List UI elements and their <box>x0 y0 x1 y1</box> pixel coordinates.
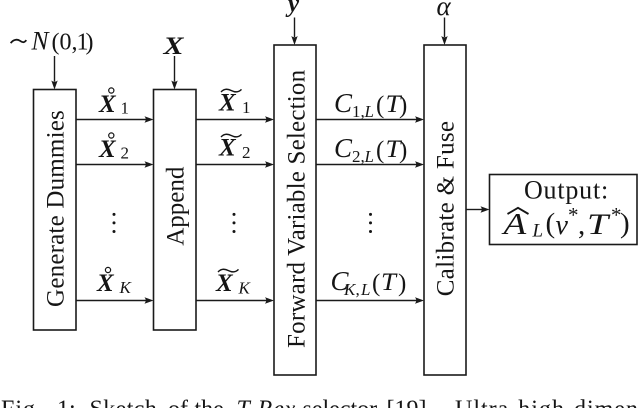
svg-text:T: T <box>381 269 398 296</box>
svg-text:*: * <box>568 203 579 227</box>
wire row2 FVS to Calibrate <box>316 161 424 167</box>
dots column 3 <box>369 213 372 233</box>
svg-text:L: L <box>360 280 370 299</box>
svg-text:v: v <box>556 210 569 241</box>
wire row1 FVS to Calibrate <box>316 116 424 122</box>
svg-text:C: C <box>334 88 353 118</box>
wire arrow y to Forward Variable Selection <box>291 18 297 46</box>
label X2 ring <box>98 133 129 163</box>
svg-text:C: C <box>334 133 353 163</box>
wire arrow X to Append <box>171 56 177 90</box>
svg-text:X: X <box>98 91 117 118</box>
svg-text:1: 1 <box>121 99 130 118</box>
wire row2 Append to FVS <box>196 161 274 167</box>
label CKL(T) <box>331 266 407 299</box>
wire rowK Append to FVS <box>196 297 274 303</box>
svg-text:(: ( <box>376 92 384 119</box>
svg-text:Forward Variable Selection: Forward Variable Selection <box>284 69 311 348</box>
svg-text:(: ( <box>372 270 380 297</box>
svg-text:L: L <box>364 147 374 166</box>
wire row2 Generate Dummies to Append <box>76 161 154 167</box>
svg-text:N: N <box>31 27 51 56</box>
svg-text:of: of <box>168 397 188 408</box>
wire arrow N(0,1) to Generate Dummies <box>51 56 57 90</box>
svg-text:X: X <box>98 136 117 163</box>
label X1 ring <box>98 88 129 118</box>
svg-text:(: ( <box>546 208 556 240</box>
label C1L(T) <box>334 88 407 121</box>
label XK ring <box>96 267 133 297</box>
svg-text:(: ( <box>376 137 384 164</box>
label X1 tilde <box>218 89 251 117</box>
label C2L(T) <box>334 133 407 166</box>
dots column 1 <box>113 213 116 233</box>
svg-text:X: X <box>218 90 237 117</box>
label A_L(v*,T*) <box>501 203 629 242</box>
block Calibrate & Fuse <box>424 45 466 375</box>
svg-text:K: K <box>238 279 252 298</box>
svg-text:,: , <box>356 280 360 299</box>
svg-text:T-Rex: T-Rex <box>237 397 297 408</box>
caption Fig. 1 <box>1 397 639 408</box>
svg-text:the: the <box>195 397 224 408</box>
svg-text:X: X <box>96 270 115 297</box>
svg-text:L: L <box>532 221 544 242</box>
svg-text:Append: Append <box>163 166 190 246</box>
svg-text:T: T <box>587 208 611 241</box>
svg-text:Calibrate & Fuse: Calibrate & Fuse <box>433 121 460 297</box>
wire Calibrate to Output <box>466 206 490 212</box>
svg-text:): ) <box>399 137 407 164</box>
svg-text:Sketch: Sketch <box>90 397 158 408</box>
svg-text:[19].: [19]. <box>387 397 433 408</box>
svg-text:,: , <box>578 209 585 241</box>
dots column 2 <box>233 213 236 233</box>
wire arrow alpha to Calibrate & Fuse <box>441 18 447 46</box>
svg-text:Output:: Output: <box>524 176 609 205</box>
wire row1 Generate Dummies to Append <box>76 116 154 122</box>
wire row1 Append to FVS <box>196 116 274 122</box>
svg-text:1,: 1, <box>352 102 365 121</box>
label ~N(0,1) <box>11 27 94 56</box>
svg-text:(0,: (0, <box>52 30 78 56</box>
svg-text:Generate Dummies: Generate Dummies <box>43 110 70 307</box>
svg-text:2: 2 <box>242 143 251 162</box>
block Append <box>154 90 197 331</box>
svg-text:selector: selector <box>303 397 378 408</box>
block Output <box>490 175 638 245</box>
svg-text:K: K <box>119 278 133 297</box>
svg-text:L: L <box>364 102 374 121</box>
block Forward Variable Selection <box>274 45 316 375</box>
block Generate Dummies <box>34 90 77 331</box>
svg-text:X: X <box>215 270 234 297</box>
svg-text:1:: 1: <box>57 397 76 408</box>
svg-text:X: X <box>218 135 237 162</box>
svg-text:1: 1 <box>242 98 251 117</box>
svg-text:): ) <box>399 92 407 119</box>
svg-text:): ) <box>620 208 630 240</box>
label XK tilde <box>215 269 252 297</box>
svg-text:Fig.: Fig. <box>1 397 43 408</box>
svg-text:X: X <box>162 33 185 60</box>
label X2 tilde <box>218 134 251 162</box>
svg-text:2,: 2, <box>352 147 365 166</box>
wire rowK FVS to Calibrate <box>316 297 424 303</box>
svg-text:): ) <box>398 270 406 297</box>
wire rowK Generate Dummies to Append <box>76 297 154 303</box>
svg-text:2: 2 <box>121 144 130 163</box>
svg-text:Ultra-high-dimen: Ultra-high-dimen <box>455 397 639 408</box>
svg-text:y: y <box>285 0 300 18</box>
svg-text:): ) <box>86 30 94 56</box>
